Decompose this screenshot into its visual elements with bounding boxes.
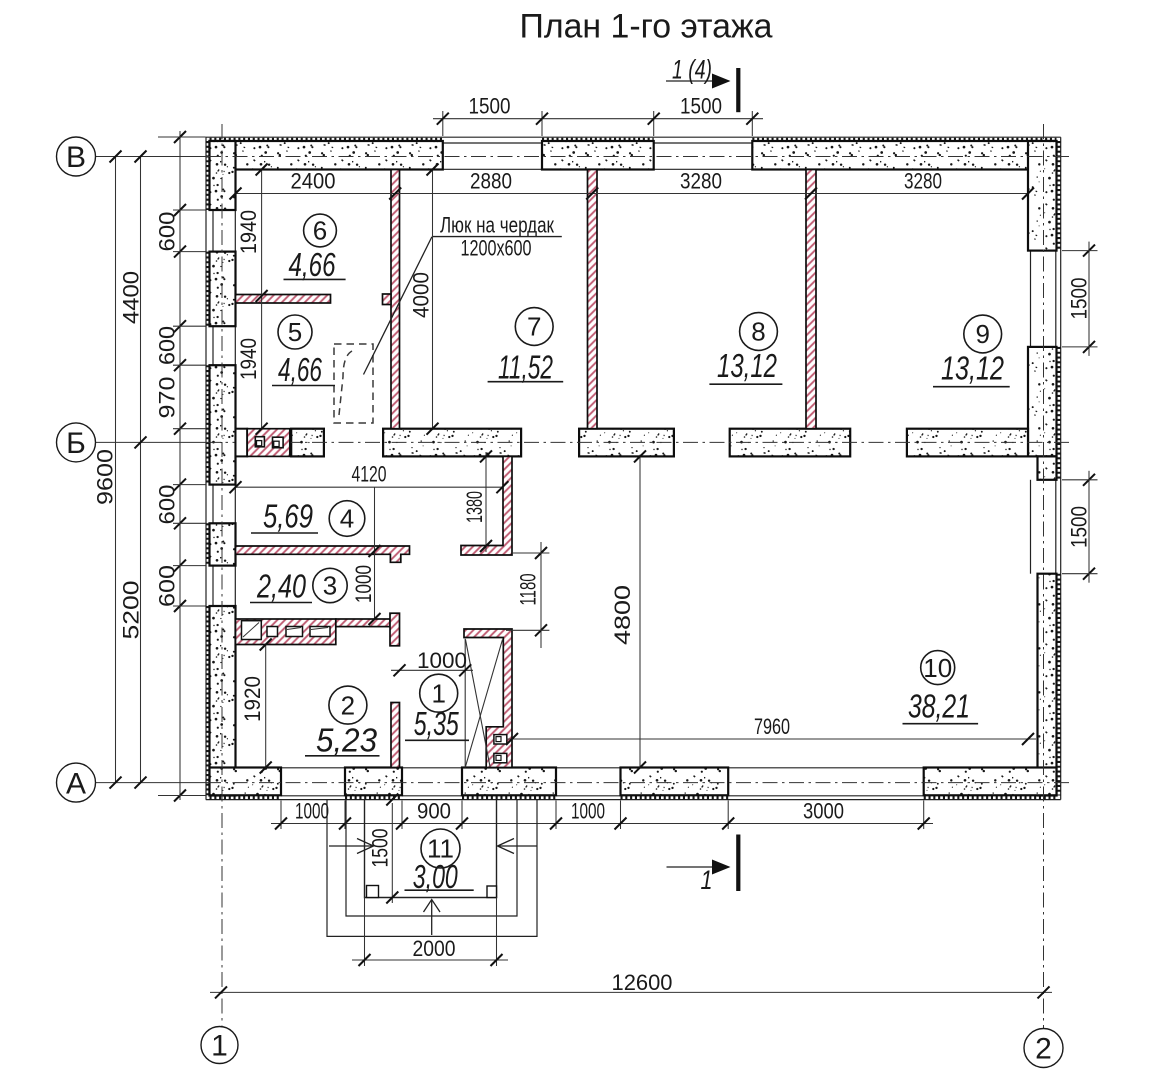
svg-text:970: 970 <box>155 377 180 419</box>
svg-text:3280: 3280 <box>680 169 722 194</box>
svg-text:600: 600 <box>155 565 180 607</box>
svg-text:3: 3 <box>323 571 337 601</box>
svg-text:13,12: 13,12 <box>717 347 777 384</box>
svg-text:1: 1 <box>701 865 713 895</box>
svg-text:1000: 1000 <box>571 799 605 824</box>
svg-text:2: 2 <box>1035 1033 1052 1066</box>
svg-text:8: 8 <box>751 317 765 347</box>
svg-text:План 1-го этажа: План 1-го этажа <box>520 8 773 46</box>
svg-text:1940: 1940 <box>236 338 261 380</box>
svg-text:1500: 1500 <box>1067 278 1092 320</box>
svg-text:4,66: 4,66 <box>289 246 336 283</box>
svg-text:2880: 2880 <box>470 169 512 194</box>
svg-text:1920: 1920 <box>240 676 265 722</box>
svg-text:5,69: 5,69 <box>263 497 313 534</box>
svg-text:3000: 3000 <box>803 799 844 824</box>
svg-text:2,40: 2,40 <box>256 568 306 605</box>
svg-text:1200х600: 1200х600 <box>461 236 532 261</box>
svg-text:600: 600 <box>155 326 180 365</box>
svg-text:2000: 2000 <box>413 936 456 961</box>
svg-text:1: 1 <box>211 1030 228 1063</box>
svg-text:1000: 1000 <box>351 565 376 603</box>
svg-text:5,23: 5,23 <box>316 722 378 759</box>
svg-text:9600: 9600 <box>93 449 118 505</box>
svg-text:4,66: 4,66 <box>278 351 322 388</box>
svg-text:4800: 4800 <box>610 585 635 645</box>
svg-text:1: 1 <box>431 678 445 708</box>
svg-text:11,52: 11,52 <box>498 349 553 386</box>
svg-text:600: 600 <box>155 485 180 525</box>
svg-text:10: 10 <box>923 653 952 683</box>
svg-text:Б: Б <box>66 427 86 460</box>
svg-text:5,35: 5,35 <box>414 705 459 742</box>
svg-text:600: 600 <box>155 212 180 252</box>
svg-text:1500: 1500 <box>680 94 722 119</box>
svg-text:5: 5 <box>288 317 302 347</box>
svg-text:4000: 4000 <box>409 272 434 318</box>
svg-text:1000: 1000 <box>417 648 467 673</box>
svg-text:Люк на чердак: Люк на чердак <box>440 213 554 238</box>
svg-text:2: 2 <box>341 690 355 720</box>
svg-text:12600: 12600 <box>612 970 673 995</box>
svg-text:2400: 2400 <box>291 169 336 194</box>
svg-text:4: 4 <box>340 504 354 534</box>
svg-text:В: В <box>66 141 86 174</box>
svg-text:1500: 1500 <box>1067 506 1092 548</box>
svg-text:4400: 4400 <box>119 271 144 324</box>
svg-text:1940: 1940 <box>236 210 261 254</box>
svg-text:6: 6 <box>313 216 327 246</box>
svg-text:1500: 1500 <box>368 829 393 868</box>
svg-text:1 (4): 1 (4) <box>672 55 712 85</box>
svg-text:А: А <box>66 767 86 800</box>
svg-text:1000: 1000 <box>295 799 329 824</box>
svg-text:1180: 1180 <box>516 574 541 606</box>
svg-text:13,12: 13,12 <box>941 350 1004 387</box>
svg-text:1380: 1380 <box>462 491 487 523</box>
svg-text:5200: 5200 <box>119 581 144 640</box>
svg-text:7: 7 <box>527 312 541 342</box>
svg-text:1500: 1500 <box>469 94 511 119</box>
svg-text:9: 9 <box>975 319 989 349</box>
svg-text:7960: 7960 <box>754 714 790 739</box>
svg-text:3280: 3280 <box>904 169 942 194</box>
svg-text:38,21: 38,21 <box>908 688 970 725</box>
svg-text:4120: 4120 <box>352 462 387 487</box>
svg-text:900: 900 <box>417 799 451 824</box>
